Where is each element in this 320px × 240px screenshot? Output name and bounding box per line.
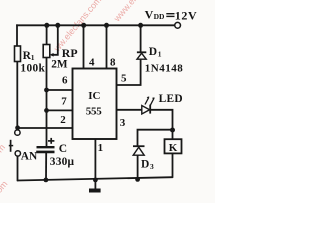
svg-text:LED: LED: [159, 93, 183, 105]
node: relay/LED junction: [170, 128, 175, 133]
relay K box: [165, 139, 182, 153]
node: rail junction at wiper: [55, 23, 60, 28]
svg-text:6: 6: [62, 74, 68, 86]
wire: D1 branch from rail: [140, 25, 142, 52]
svg-text:555: 555: [86, 105, 102, 117]
node: D3 bottom rail junction: [135, 177, 140, 182]
wire: K bottom to rail: [172, 153, 174, 178]
resistor R1: [15, 46, 21, 62]
push button actuator bar: [10, 140, 12, 152]
svg-text:5: 5: [121, 73, 127, 85]
svg-text:330μ: 330μ: [50, 156, 75, 168]
wire: pin 6: [47, 89, 73, 91]
diode D1 (vertical, cathode bar top): [137, 52, 146, 59]
svg-text:AN: AN: [21, 151, 38, 163]
label VDD = 12V: [166, 13, 174, 15]
svg-text:4: 4: [89, 56, 95, 68]
svg-text:K: K: [169, 142, 178, 154]
node: ground rail junction: [93, 178, 98, 183]
svg-text:DD: DD: [154, 12, 165, 21]
svg-text:V: V: [145, 7, 154, 21]
node: capacitor bottom rail junction: [44, 178, 49, 183]
svg-text:C: C: [59, 143, 67, 155]
node: rail junction at RP: [44, 23, 49, 28]
wire: RP wiper vertical from rail: [52, 25, 58, 55]
wire: capacitor bottom lead: [45, 153, 47, 180]
svg-text:3: 3: [150, 162, 154, 171]
wire: pin 4 from rail: [83, 25, 85, 69]
LED D2 (horizontal, apex right): [142, 96, 155, 114]
wire: pin 1 / ground drop: [94, 139, 96, 189]
ground: [89, 189, 101, 193]
svg-text:1: 1: [158, 50, 162, 59]
potentiometer RP wiper arrowhead: [50, 53, 54, 57]
svg-text:12V: 12V: [175, 8, 197, 22]
svg-text:7: 7: [61, 96, 67, 108]
op-amp U1: IC 555 box: [73, 69, 117, 140]
terminal: VDD supply circle: [175, 22, 181, 28]
wire: D1 anode to pin 5 corner: [117, 59, 141, 85]
capacitor + polarity: [48, 140, 54, 142]
wire: pin 3 to LED: [117, 109, 142, 111]
wire: bottom rail: [17, 177, 173, 180]
svg-text:1: 1: [98, 142, 104, 154]
wire: D3 bottom to rail: [137, 155, 139, 180]
svg-text:3: 3: [120, 117, 126, 129]
svg-text:8: 8: [110, 56, 116, 68]
wire: relay node to D3 top: [138, 130, 173, 147]
wire: LED cathode to corner, down to relay node: [150, 110, 172, 131]
node: pin7 junction: [44, 108, 49, 113]
svg-text:IC: IC: [88, 90, 100, 102]
wire: pin 8 from rail: [106, 25, 108, 69]
svg-text:2: 2: [60, 114, 66, 126]
svg-text:1N4148: 1N4148: [145, 62, 183, 74]
wire: left vertical upper (rail to R1): [16, 24, 18, 46]
svg-text:100k: 100k: [20, 62, 45, 74]
push button AN contacts: [15, 130, 20, 135]
svg-text:D: D: [141, 158, 149, 170]
node: button top junction: [15, 125, 20, 130]
node: rail junction at pin4: [81, 23, 86, 28]
svg-text:D: D: [149, 46, 157, 58]
watermark www.elecfans.com diagonal: [0, 0, 167, 198]
wire: pin 2 from button node to IC: [18, 127, 73, 129]
wire: button lower contact to bottom rail: [17, 156, 19, 181]
wire: top rail VDD: [16, 24, 174, 26]
potentiometer RP body: [43, 45, 50, 58]
node: pin6 junction: [44, 88, 49, 93]
node: rail junction at D1: [138, 23, 143, 28]
wire: RP bottom lead down to capacitor: [46, 57, 48, 147]
wire: RP top lead: [46, 25, 48, 45]
LED light rays: [145, 97, 149, 104]
wire: R1 bottom to button node: [16, 61, 18, 130]
diode D3 (vertical, cathode bar top): [133, 146, 145, 155]
wire: pin 7: [47, 109, 73, 111]
capacitor C plates: [37, 146, 55, 148]
wire: relay node to K top: [172, 130, 174, 139]
svg-text:1: 1: [31, 53, 35, 62]
svg-text:2M: 2M: [51, 58, 68, 70]
node: rail junction at pin8: [104, 23, 109, 28]
